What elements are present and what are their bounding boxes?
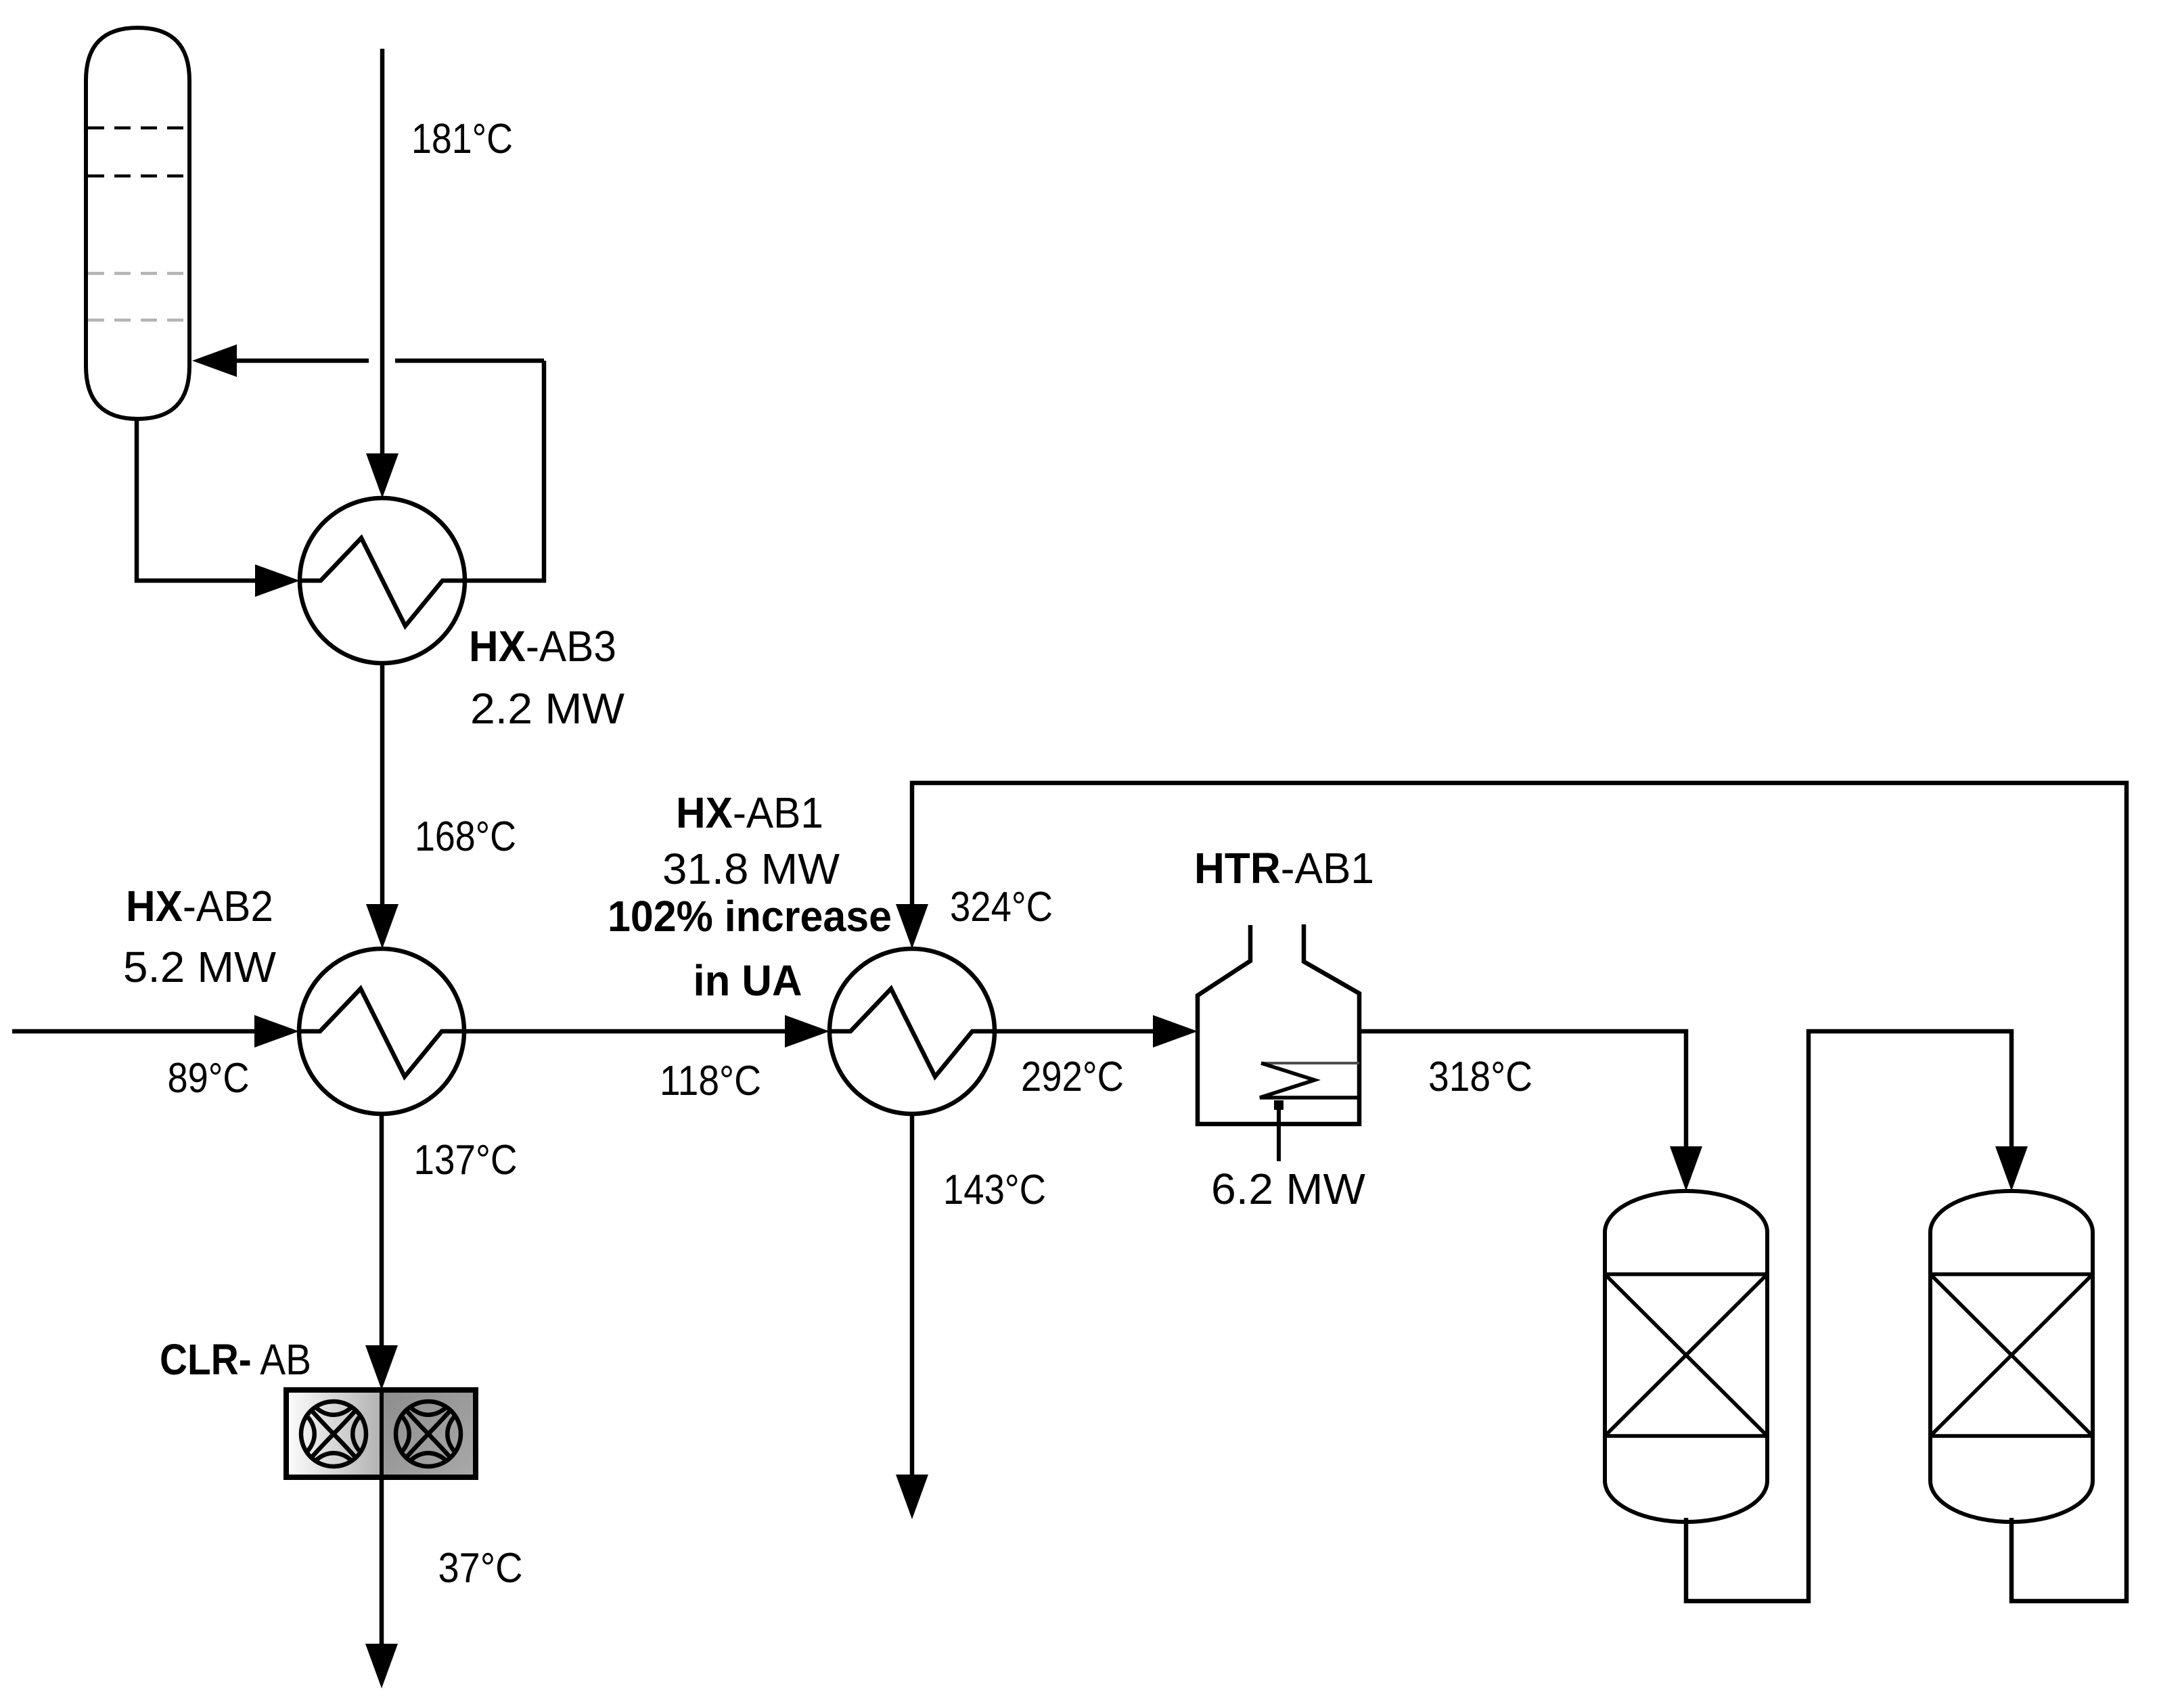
svg-text:102% increase: 102% increase <box>608 892 892 941</box>
heater duty stem <box>1277 1109 1281 1161</box>
wire recycle into column (left of crossing) <box>235 359 369 363</box>
arrowhead into HX-AB3 top <box>366 453 399 498</box>
svg-text:118°C: 118°C <box>660 1058 761 1104</box>
column tray dashed line 3 (light) <box>88 272 187 275</box>
arrowhead into cooler <box>365 1345 398 1390</box>
svg-text:137°C: 137°C <box>414 1137 518 1184</box>
svg-text:168°C: 168°C <box>415 813 516 860</box>
wire column bottoms to HX-AB3 <box>137 417 257 581</box>
wire reactor R1 to reactor R2 <box>1686 1031 2012 1601</box>
heat exchanger HX-AB1 <box>829 949 995 1114</box>
wire HX-AB3 to HX-AB2 <box>380 663 385 905</box>
svg-text:292°C: 292°C <box>1021 1054 1124 1100</box>
column tray dashed line 2 <box>88 175 187 178</box>
svg-text:318°C: 318°C <box>1428 1054 1532 1100</box>
svg-text:143°C: 143°C <box>943 1167 1046 1213</box>
svg-text:324°C: 324°C <box>950 884 1053 930</box>
arrowhead into HX-AB2 left <box>254 1015 299 1048</box>
arrowhead into reactor R2 <box>1995 1146 2028 1191</box>
wire loop HX-AB3 to recycle <box>465 361 544 581</box>
wire HX-AB2 to cooler <box>380 1114 384 1347</box>
arrowhead into HX-AB2 top <box>366 904 399 949</box>
distillation column <box>86 28 189 419</box>
wire heater to reactor R1 <box>1359 1031 1686 1148</box>
svg-text:in UA: in UA <box>694 956 802 1005</box>
svg-text:31.8 MW: 31.8 MW <box>662 845 840 893</box>
heat exchanger HX-AB3 <box>300 498 465 663</box>
reactor R1 packing box <box>1605 1274 1767 1436</box>
reactor R2 vessel <box>1930 1191 2093 1522</box>
svg-text:HX-AB3: HX-AB3 <box>469 622 616 671</box>
column tray dashed line 1 <box>88 127 187 130</box>
wire feed 89C into HX-AB2 <box>12 1029 257 1034</box>
svg-text:HX-AB2: HX-AB2 <box>126 882 273 930</box>
arrowhead HX-AB1 bottom outlet <box>896 1475 928 1519</box>
svg-text:HX-AB1: HX-AB1 <box>676 788 823 837</box>
column tray dashed line 4 (light) <box>88 319 187 322</box>
wire HX-AB2 to HX-AB1 <box>464 1029 788 1034</box>
heat exchanger HX-AB2 <box>299 949 464 1114</box>
wire hot return from reactors to HX-AB1 <box>912 783 2127 1601</box>
wire HX-AB1 bottom outlet 143C <box>910 1114 915 1475</box>
svg-text:89°C: 89°C <box>168 1055 250 1102</box>
cooler CLR-AB box left cell <box>286 1390 382 1477</box>
reactor R1 vessel <box>1605 1191 1767 1522</box>
wire 181C feed vertical into HX-AB3 <box>380 49 385 455</box>
arrowhead into HX-AB1 top <box>896 904 928 949</box>
arrowhead into HX-AB1 left <box>785 1015 829 1048</box>
heater coil <box>1261 1062 1359 1064</box>
cooler fan 2 <box>396 1401 461 1466</box>
svg-text:HTR-AB1: HTR-AB1 <box>1194 844 1374 893</box>
svg-text:2.2 MW: 2.2 MW <box>470 684 625 733</box>
svg-text:181°C: 181°C <box>411 116 513 162</box>
heater HTR-AB1 body <box>1198 924 1359 1124</box>
cooler fan 1 <box>301 1401 366 1466</box>
svg-text:5.2 MW: 5.2 MW <box>123 943 277 991</box>
heater duty dot <box>1274 1100 1283 1110</box>
svg-text:CLR- AB: CLR- AB <box>160 1335 311 1384</box>
wire recycle into column (right of crossing) <box>395 359 544 363</box>
arrowhead cooler outlet <box>365 1644 398 1688</box>
arrowhead into heater <box>1153 1015 1198 1048</box>
arrowhead into HX-AB3 left <box>255 564 300 597</box>
reactor R2 packing box <box>1930 1274 2093 1436</box>
wire HX-AB1 to heater <box>995 1029 1156 1034</box>
arrowhead into reactor R1 <box>1670 1146 1702 1191</box>
wire cooler outlet 37C <box>380 1478 384 1645</box>
cooler CLR-AB box right cell <box>382 1390 476 1477</box>
svg-text:6.2 MW: 6.2 MW <box>1211 1165 1366 1213</box>
arrowhead into column <box>192 344 237 377</box>
svg-text:37°C: 37°C <box>438 1545 523 1592</box>
